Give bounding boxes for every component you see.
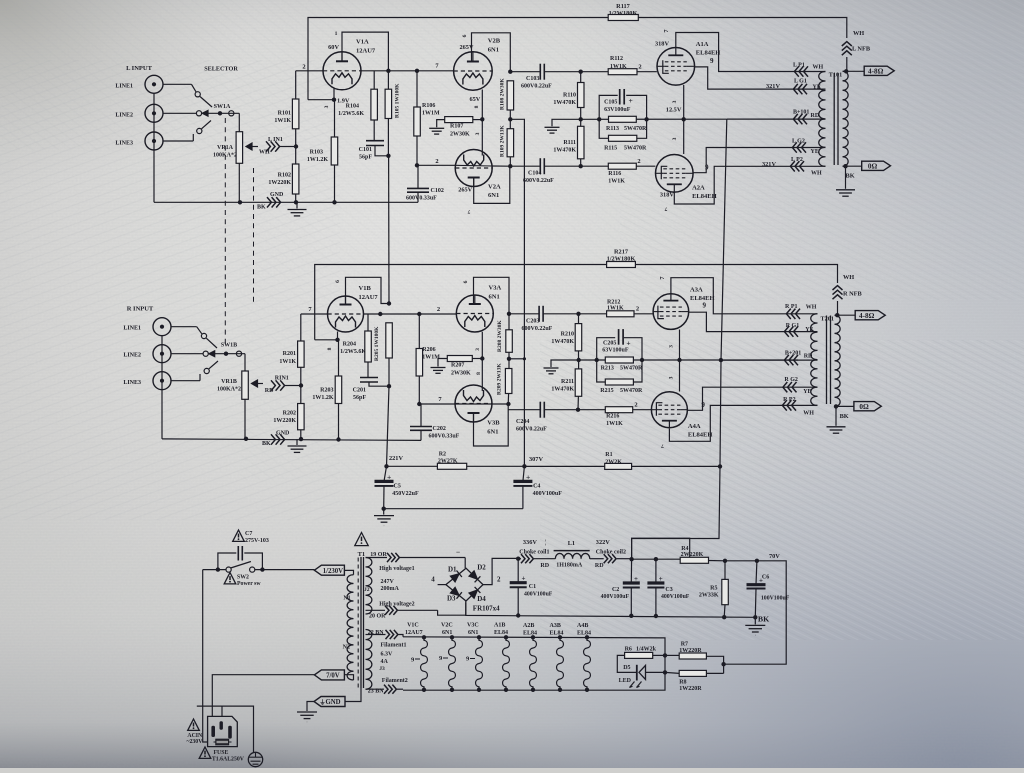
svg-text:63V100uF: 63V100uF xyxy=(602,347,629,353)
svg-text:400V100uF: 400V100uF xyxy=(661,594,690,600)
svg-text:3: 3 xyxy=(475,132,481,135)
switch SW2 power xyxy=(224,573,236,584)
svg-text:V2B: V2B xyxy=(488,38,501,45)
svg-text:EL84EH: EL84EH xyxy=(688,432,713,439)
svg-text:1W1K: 1W1K xyxy=(279,359,296,365)
capacitor C4 electrolytic xyxy=(523,466,525,481)
capacitor C202 xyxy=(420,404,422,427)
wire T101 P2 tap xyxy=(790,165,826,167)
svg-text:LED: LED xyxy=(619,678,632,684)
svg-text:R112: R112 xyxy=(610,56,623,62)
svg-text:V3A: V3A xyxy=(489,285,502,292)
svg-text:4-8Ω: 4-8Ω xyxy=(859,312,875,320)
wire bridge left vertex xyxy=(438,584,446,586)
svg-text:247V: 247V xyxy=(381,579,395,585)
svg-text:LINE3: LINE3 xyxy=(115,141,133,147)
dashed gang link SW1A-SW1B xyxy=(224,118,226,348)
svg-text:12AU7: 12AU7 xyxy=(405,630,423,636)
capacitor C203 xyxy=(509,313,539,315)
svg-text:V3C: V3C xyxy=(467,623,479,629)
svg-text:1/2W5.6K: 1/2W5.6K xyxy=(338,111,364,117)
svg-text:R NFB: R NFB xyxy=(843,291,863,298)
transformer T1 filament secondary xyxy=(366,630,372,690)
heater V3C xyxy=(477,635,481,639)
svg-text:A3B: A3B xyxy=(550,623,561,629)
svg-text:Choke coil2: Choke coil2 xyxy=(596,549,626,555)
svg-text:400V100uF: 400V100uF xyxy=(524,591,553,597)
wire V2A plate to R109 xyxy=(474,166,510,203)
svg-text:100KA*2: 100KA*2 xyxy=(217,387,241,393)
svg-text:7: 7 xyxy=(663,29,670,32)
svg-text:265V: 265V xyxy=(458,187,472,194)
svg-text:6N1: 6N1 xyxy=(468,630,478,636)
svg-text:EL84: EL84 xyxy=(577,630,591,636)
wire V1B plate loop xyxy=(346,277,390,304)
wire T201 P2 tap xyxy=(783,404,817,406)
wire V2A grid dash extension xyxy=(455,164,492,167)
svg-text:6: 6 xyxy=(462,34,468,37)
svg-text:2W33K: 2W33K xyxy=(699,593,719,599)
svg-text:6N1: 6N1 xyxy=(487,429,498,436)
warning FUSE xyxy=(199,747,211,758)
svg-text:400V100uF: 400V100uF xyxy=(533,491,563,497)
svg-text:12AU7: 12AU7 xyxy=(356,48,376,55)
wire A1A screen to T101 G1 xyxy=(695,67,826,89)
svg-text:60V: 60V xyxy=(328,44,339,51)
svg-text:0Ω: 0Ω xyxy=(868,162,878,170)
wire V1B grid right to V3A xyxy=(364,313,457,315)
protective earth symbol xyxy=(248,752,262,766)
resistor R115 xyxy=(599,119,608,138)
wire A4A plate to T201 P2 xyxy=(669,405,783,441)
svg-text:12AU7: 12AU7 xyxy=(359,294,379,301)
svg-text:A3A: A3A xyxy=(690,287,703,294)
output terminal R 0ohm xyxy=(836,405,854,407)
wire 307V screen feed vertical xyxy=(510,119,524,466)
wire L jacks bus xyxy=(153,93,155,202)
svg-text:R216: R216 xyxy=(606,414,619,420)
svg-text:8: 8 xyxy=(474,105,480,108)
svg-text:1W1K: 1W1K xyxy=(274,118,291,124)
svg-text:R207: R207 xyxy=(451,363,464,369)
svg-text:4A: 4A xyxy=(381,659,389,665)
heater A1B xyxy=(504,635,508,639)
diode D4 xyxy=(469,590,478,599)
svg-text:A1A: A1A xyxy=(696,41,709,48)
wire R NFB top rail xyxy=(315,265,838,340)
svg-text:1/2W5.6K: 1/2W5.6K xyxy=(340,349,366,355)
svg-text:V1A: V1A xyxy=(356,39,369,46)
bypass rail above R4 xyxy=(632,538,690,559)
capacitor C105 electrolytic xyxy=(599,95,618,119)
svg-text:R117: R117 xyxy=(616,3,630,10)
svg-text:L INPUT: L INPUT xyxy=(126,65,152,72)
svg-text:600V0.33uF: 600V0.33uF xyxy=(406,196,437,202)
svg-text:322V: 322V xyxy=(596,539,610,546)
svg-text:C105: C105 xyxy=(604,99,617,105)
wire heater top bus xyxy=(403,637,665,690)
svg-text:D5: D5 xyxy=(623,665,630,671)
svg-text:Filament1: Filament1 xyxy=(381,643,407,649)
connector R NFB chevrons xyxy=(833,286,843,290)
svg-text:LINE2: LINE2 xyxy=(115,113,133,119)
wire A2A plate to T101 P2 xyxy=(674,166,790,204)
wire V2A grid xyxy=(417,164,455,166)
svg-text:3: 3 xyxy=(672,137,678,140)
resistor R208 xyxy=(506,330,513,353)
svg-text:2W30K: 2W30K xyxy=(451,371,471,377)
heater A2B xyxy=(531,635,535,639)
svg-text:EL84EH: EL84EH xyxy=(696,50,721,57)
svg-text:321V: 321V xyxy=(762,161,776,168)
wire V2B cathode to R107 xyxy=(481,90,483,156)
svg-text:+: + xyxy=(659,575,663,583)
svg-text:GND: GND xyxy=(276,431,290,437)
svg-text:T1.6AL250V: T1.6AL250V xyxy=(212,757,245,763)
svg-text:100V100uF: 100V100uF xyxy=(761,596,790,602)
svg-text:5W470R: 5W470R xyxy=(624,145,647,151)
svg-text:D2: D2 xyxy=(477,564,486,572)
AC plug xyxy=(208,716,238,746)
dashed gang link VR1A-VR1B xyxy=(253,168,255,302)
svg-text:7: 7 xyxy=(661,443,664,449)
svg-text:2: 2 xyxy=(302,64,305,71)
terminal GND xyxy=(314,697,345,707)
svg-text:C203: C203 xyxy=(526,318,539,324)
svg-text:2: 2 xyxy=(437,306,440,313)
resistor R117 xyxy=(608,15,638,21)
node 70V xyxy=(725,560,757,562)
svg-text:600V0.22uF: 600V0.22uF xyxy=(522,326,553,332)
resistor R209 xyxy=(508,359,510,369)
svg-text:1W470K: 1W470K xyxy=(551,387,574,393)
wire B+101 feed xyxy=(727,118,826,120)
ground R bias xyxy=(551,360,579,367)
svg-text:C4: C4 xyxy=(533,484,540,490)
svg-text:1: 1 xyxy=(335,31,338,37)
svg-text:N1: N1 xyxy=(343,596,350,602)
svg-text:L G2: L G2 xyxy=(792,139,805,145)
capacitor C104 xyxy=(510,165,540,167)
ground L bias xyxy=(552,119,581,126)
svg-text:3: 3 xyxy=(324,105,330,108)
svg-text:1W1K: 1W1K xyxy=(606,421,623,427)
wire GND to shield xyxy=(345,688,361,702)
svg-text:Filament2: Filament2 xyxy=(382,678,408,684)
ground T201 xyxy=(835,406,837,425)
svg-text:BK: BK xyxy=(840,413,849,420)
svg-text:V2A: V2A xyxy=(488,184,501,191)
svg-text:RIN1: RIN1 xyxy=(275,376,289,382)
wire A4A screen to T201 G2 xyxy=(687,387,817,410)
wire VR1B bottom xyxy=(244,399,246,439)
resistor R105 xyxy=(385,89,392,118)
svg-text:6N1: 6N1 xyxy=(489,294,500,301)
wire V2B plate loop xyxy=(472,33,511,72)
svg-text:LINE1: LINE1 xyxy=(115,84,133,90)
resistor R217 xyxy=(607,262,636,268)
heater A3B xyxy=(558,635,562,639)
svg-text:3: 3 xyxy=(672,100,678,103)
resistor R108 xyxy=(507,81,513,110)
svg-text:8: 8 xyxy=(327,347,333,350)
svg-text:SW1A: SW1A xyxy=(214,104,231,110)
wire A2A screen to T101 G2 xyxy=(693,148,825,173)
svg-text:RD: RD xyxy=(540,563,549,569)
svg-text:R107: R107 xyxy=(450,124,463,130)
svg-text:1/2W180K: 1/2W180K xyxy=(607,255,636,262)
svg-text:R115: R115 xyxy=(604,145,617,151)
svg-text:D3: D3 xyxy=(447,595,456,603)
svg-text:D4: D4 xyxy=(477,595,486,603)
svg-text:6: 6 xyxy=(335,280,341,283)
heater V2C xyxy=(450,635,454,639)
wire V1B grid xyxy=(301,313,328,315)
svg-text:6N1: 6N1 xyxy=(488,47,499,54)
capacitor C103 xyxy=(510,71,540,73)
svg-text:1W220R: 1W220R xyxy=(679,686,702,692)
svg-text:R215: R215 xyxy=(600,388,613,394)
terminal 7/0V xyxy=(314,670,344,680)
svg-text:L P2: L P2 xyxy=(791,157,803,163)
svg-text:C103: C103 xyxy=(526,76,539,82)
wire 19 OR to bridge top xyxy=(464,558,466,569)
svg-text:R111: R111 xyxy=(563,140,576,146)
ground R input xyxy=(296,439,298,445)
transformer T101 xyxy=(819,72,826,167)
svg-text:70V: 70V xyxy=(769,553,780,560)
svg-text:2: 2 xyxy=(637,158,640,165)
warning ACIN xyxy=(188,719,200,730)
capacitor C7 with warning xyxy=(233,530,245,541)
node 322V C2 xyxy=(629,557,633,561)
svg-text:J3: J3 xyxy=(379,666,385,672)
wire L NFB top rail xyxy=(308,18,847,100)
svg-text:7: 7 xyxy=(467,208,470,214)
svg-text:R8: R8 xyxy=(679,679,686,685)
svg-text:High voltage1: High voltage1 xyxy=(379,566,415,572)
svg-text:SW1B: SW1B xyxy=(221,343,237,349)
svg-text:A4A: A4A xyxy=(688,423,701,430)
svg-text:−: − xyxy=(456,548,460,557)
svg-text:R209 2W13K: R209 2W13K xyxy=(497,363,503,395)
svg-text:A1B: A1B xyxy=(494,623,505,629)
svg-text:BK: BK xyxy=(257,205,266,211)
svg-text:C1: C1 xyxy=(529,584,536,590)
wire C4 to C5 ground xyxy=(384,508,523,510)
svg-text:C205: C205 xyxy=(603,340,616,346)
capacitor C6 electrolytic xyxy=(755,561,758,585)
svg-text:221V: 221V xyxy=(389,455,403,462)
svg-text:R6: R6 xyxy=(625,646,632,652)
ground L input xyxy=(296,202,298,208)
wire V3A cathode down xyxy=(481,332,483,391)
svg-text:FUSE: FUSE xyxy=(214,750,229,756)
svg-text:R103: R103 xyxy=(310,150,323,156)
svg-text:Choke coil1: Choke coil1 xyxy=(519,549,549,555)
wire 20 OR to bridge bottom xyxy=(438,603,466,616)
svg-text:C204: C204 xyxy=(516,419,529,425)
svg-text:600V0.22uF: 600V0.22uF xyxy=(516,427,547,433)
output terminal R 4-8ohm xyxy=(838,314,856,316)
wire L ground bus xyxy=(154,201,418,203)
svg-text:1W470K: 1W470K xyxy=(551,339,574,345)
capacitor C205 electrolytic xyxy=(597,338,616,360)
svg-text:J2: J2 xyxy=(364,587,370,593)
svg-text:1W1.2K: 1W1.2K xyxy=(307,157,329,163)
resistor R113 xyxy=(609,116,637,122)
svg-text:Power sw: Power sw xyxy=(237,581,261,587)
wire 1/230V to T1 primary xyxy=(344,570,353,574)
svg-text:R106: R106 xyxy=(422,103,435,109)
svg-text:5W470R: 5W470R xyxy=(620,365,643,371)
svg-text:LINE1: LINE1 xyxy=(123,326,141,332)
svg-text:A4B: A4B xyxy=(577,623,588,629)
svg-text:12.5V: 12.5V xyxy=(666,107,682,114)
svg-text:R101: R101 xyxy=(278,111,291,117)
svg-text:EL84: EL84 xyxy=(550,630,564,636)
svg-text:R212: R212 xyxy=(607,299,620,305)
svg-text:A2B: A2B xyxy=(523,623,534,629)
svg-text:RD: RD xyxy=(265,388,274,394)
transformer T201 xyxy=(811,314,818,406)
svg-text:D1: D1 xyxy=(448,566,457,574)
svg-text:+: + xyxy=(629,96,633,105)
output terminal L 4-8ohm xyxy=(847,70,864,72)
svg-text:VR1B: VR1B xyxy=(221,379,237,385)
svg-text:1W470K: 1W470K xyxy=(553,148,576,154)
svg-text:400V100uF: 400V100uF xyxy=(601,594,630,600)
svg-text:WH: WH xyxy=(803,411,814,417)
svg-text:600V0.22uF: 600V0.22uF xyxy=(523,178,554,184)
resistor R205 xyxy=(386,323,393,358)
node C1 336V xyxy=(516,557,520,561)
svg-text:WH: WH xyxy=(259,150,270,156)
svg-text:8: 8 xyxy=(476,372,482,375)
svg-text:R201: R201 xyxy=(283,351,296,357)
svg-text:FR107x4: FR107x4 xyxy=(473,605,500,613)
wire V1A grid xyxy=(296,70,323,72)
svg-text:V1B: V1B xyxy=(359,285,372,292)
svg-text:R211: R211 xyxy=(561,379,574,385)
svg-text:R102: R102 xyxy=(278,173,291,179)
svg-text:LINE2: LINE2 xyxy=(123,353,141,359)
svg-text:9: 9 xyxy=(703,302,707,310)
diode bridge D1-D4 FR107x4 xyxy=(446,568,483,601)
svg-text:R208 2W30K: R208 2W30K xyxy=(497,320,503,352)
svg-text:7: 7 xyxy=(664,206,667,212)
svg-text:20 OR: 20 OR xyxy=(369,614,386,620)
wire R jacks bus xyxy=(161,336,163,439)
svg-text:N2: N2 xyxy=(343,645,350,651)
svg-text:BK: BK xyxy=(758,615,769,624)
svg-text:4-8Ω: 4-8Ω xyxy=(868,67,884,75)
svg-text:6: 6 xyxy=(463,280,469,283)
capacitor C5 electrolytic xyxy=(384,466,387,481)
svg-text:C102: C102 xyxy=(431,188,444,194)
svg-text:R1: R1 xyxy=(605,452,612,458)
svg-text:EL84EH: EL84EH xyxy=(692,193,717,200)
wire A3A plate to T201 P1 xyxy=(671,278,818,314)
svg-text:5W470R: 5W470R xyxy=(624,126,647,132)
wire R ground bus xyxy=(162,439,421,441)
svg-text:7/0V: 7/0V xyxy=(326,673,340,680)
svg-text:1H180mA: 1H180mA xyxy=(556,563,583,569)
wire V1A plate node to V2B grid xyxy=(361,70,454,72)
svg-text:56pF: 56pF xyxy=(359,155,372,161)
svg-text:BK: BK xyxy=(846,173,855,180)
svg-text:WH: WH xyxy=(806,305,817,311)
svg-text:+: + xyxy=(634,575,638,583)
svg-text:9: 9 xyxy=(705,164,709,172)
wire VR1A bottom to ground bus xyxy=(238,163,240,202)
svg-text:C2: C2 xyxy=(612,587,619,593)
svg-text:WH: WH xyxy=(843,274,854,281)
wire L cathode bias bus xyxy=(581,118,727,120)
svg-text:1/2W180K: 1/2W180K xyxy=(609,10,638,17)
svg-text:3: 3 xyxy=(475,348,481,351)
capacitor C201 xyxy=(367,362,369,378)
diode D3 xyxy=(450,587,459,595)
wire B+ main vertical xyxy=(632,119,727,559)
svg-text:EL84: EL84 xyxy=(494,630,508,636)
svg-text:EL84: EL84 xyxy=(523,630,537,636)
wire bridge plus to 336V rail xyxy=(483,558,518,584)
output terminal L 0ohm xyxy=(846,165,862,167)
svg-text:1/4W2k: 1/4W2k xyxy=(636,646,657,652)
svg-text:¦: ¦ xyxy=(545,540,546,546)
svg-text:WH: WH xyxy=(811,171,822,177)
svg-text:R213: R213 xyxy=(601,365,614,371)
svg-text:L1: L1 xyxy=(568,540,575,547)
svg-text:T101: T101 xyxy=(829,71,842,78)
svg-text:C104: C104 xyxy=(528,171,541,177)
wire R208 junction to screen feed xyxy=(509,358,524,360)
svg-text:1W220K: 1W220K xyxy=(268,180,291,186)
wire A1A plate to T101 P1 xyxy=(676,33,826,72)
svg-text:R210: R210 xyxy=(561,332,574,338)
svg-text:L NFB: L NFB xyxy=(852,46,871,53)
node V1B cathode xyxy=(337,332,339,340)
svg-text:~230V: ~230V xyxy=(187,739,204,745)
wire selector common to VR1A xyxy=(238,113,240,131)
svg-text:2: 2 xyxy=(634,402,637,409)
svg-text:C101: C101 xyxy=(359,147,372,153)
wire A3A screen to T201 G1 xyxy=(689,312,818,331)
svg-text:318V: 318V xyxy=(660,192,674,199)
svg-text:R109 2W13K: R109 2W13K xyxy=(500,125,506,157)
svg-text:R104: R104 xyxy=(346,104,359,110)
svg-text:+: + xyxy=(387,473,391,482)
svg-text:R110: R110 xyxy=(563,93,576,99)
ground GND terminal xyxy=(307,702,314,712)
svg-text:2: 2 xyxy=(435,158,438,165)
terminal 1/230V xyxy=(314,565,344,575)
svg-text:SW2: SW2 xyxy=(237,575,249,581)
svg-text:C201: C201 xyxy=(353,388,366,394)
capacitor C204 xyxy=(508,409,540,411)
node C3 xyxy=(632,558,656,560)
svg-text:R205 1W100K: R205 1W100K xyxy=(374,326,380,361)
svg-text:V2C: V2C xyxy=(441,623,453,629)
wire V3B grid xyxy=(419,403,455,405)
node 1.9V cathode xyxy=(333,88,335,100)
wire plug earth to PE circle xyxy=(222,706,254,753)
svg-text:A2A: A2A xyxy=(692,185,705,192)
svg-text:L G1: L G1 xyxy=(794,79,807,85)
svg-text:R7: R7 xyxy=(681,642,688,648)
ground PSU xyxy=(754,617,756,624)
